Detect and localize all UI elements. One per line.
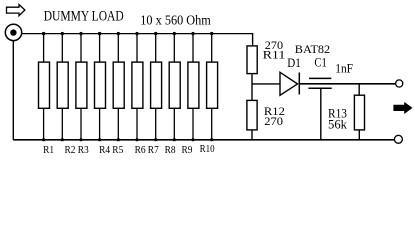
svg-text:R8: R8 (165, 145, 176, 156)
wire bottom bus (13, 139, 394, 141)
resistor R7 (151, 32, 162, 141)
svg-text:10 x 560 Ohm: 10 x 560 Ohm (140, 14, 211, 29)
svg-text:R6: R6 (135, 145, 146, 156)
input direction arrow (hollow) (7, 5, 25, 16)
svg-text:C1: C1 (314, 55, 326, 69)
svg-text:56k: 56k (328, 117, 347, 132)
resistor R10 (207, 32, 218, 141)
svg-text:R10: R10 (200, 144, 215, 155)
wire diode cathode to output (299, 83, 395, 85)
output terminal top (396, 80, 403, 87)
svg-text:BAT82: BAT82 (295, 42, 330, 56)
resistor R8 (169, 32, 180, 141)
svg-text:R7: R7 (148, 145, 159, 156)
resistor R2 (57, 32, 68, 141)
svg-text:DUMMY LOAD: DUMMY LOAD (44, 9, 124, 25)
resistor R12 (247, 100, 257, 129)
svg-text:R1: R1 (43, 145, 54, 156)
resistor R5 (113, 32, 124, 141)
wire R12 to bottom bus (251, 130, 253, 140)
wire top bus (22, 33, 253, 35)
resistor R3 (76, 32, 87, 141)
resistor R4 (95, 32, 106, 141)
capacitor C1 (309, 77, 331, 79)
output terminal bottom (394, 135, 402, 143)
output direction arrow (solid) (393, 102, 412, 114)
resistor R9 (188, 32, 199, 141)
wire junction to diode anode (252, 83, 280, 85)
diode D1 (280, 72, 298, 95)
wire left vertical (12, 41, 14, 140)
resistor R11 (247, 46, 257, 74)
resistor R13 (354, 95, 364, 130)
wire C1 to bottom bus (320, 88, 322, 140)
wire R11 to R12 (251, 74, 253, 101)
wire R13 top lead (358, 84, 360, 95)
coax input connector J1 (5, 24, 21, 40)
resistor R6 (132, 32, 143, 141)
svg-text:R5: R5 (112, 145, 123, 156)
wire R13 bottom lead (358, 130, 360, 140)
svg-text:R11: R11 (263, 49, 286, 61)
svg-text:D1: D1 (287, 56, 301, 70)
svg-text:R9: R9 (182, 145, 193, 156)
svg-text:R4: R4 (99, 145, 111, 156)
svg-text:R2: R2 (65, 145, 76, 156)
resistor R1 (39, 32, 50, 141)
svg-text:R3: R3 (78, 145, 89, 156)
svg-text:270: 270 (264, 116, 283, 128)
wire bus corner down to R11 (252, 33, 254, 46)
svg-text:1nF: 1nF (335, 62, 353, 76)
